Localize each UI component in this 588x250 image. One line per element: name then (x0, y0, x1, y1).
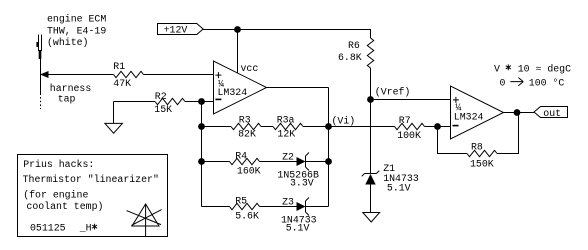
wire R8 to output (497, 113, 519, 154)
zener Z1 (362, 171, 380, 185)
svg-text:R3a: R3a (277, 115, 295, 126)
ground (Z1) (363, 213, 380, 223)
svg-text:82K: 82K (238, 128, 256, 139)
wire R5 to Z3 (260, 206, 297, 208)
op-amp U1 plus sign (215, 72, 221, 78)
resistor R7 (395, 123, 425, 129)
op-amp U1 triangle (214, 61, 267, 114)
wire op-amp2 output (504, 112, 535, 114)
svg-text:R2: R2 (155, 91, 167, 102)
svg-text:R8: R8 (471, 141, 483, 152)
wire Z3 to right bus (306, 206, 329, 208)
svg-text:3.3V: 3.3V (290, 177, 314, 188)
date code star (92, 224, 97, 230)
svg-text:_H: _H (79, 223, 92, 234)
svg-text:THW, E4-19: THW, E4-19 (47, 26, 106, 37)
zener Z2 (297, 153, 310, 171)
wire Z2 to right bus (306, 161, 329, 163)
svg-text:160K: 160K (237, 165, 261, 176)
wire Vref vertical to Z1 (370, 100, 372, 174)
svg-text:R3: R3 (239, 115, 251, 126)
svg-text:engine ECM: engine ECM (47, 13, 106, 24)
svg-text:Thermistor "linearizer": Thermistor "linearizer" (23, 174, 159, 185)
svg-text:V: V (494, 63, 500, 74)
wire R3 to R3a (261, 126, 273, 128)
svg-text:R5: R5 (235, 195, 247, 206)
connector stub (39, 50, 42, 59)
op-amp U2 triangle (451, 86, 504, 139)
svg-text:harness: harness (50, 83, 92, 94)
connector prong right (41, 35, 43, 52)
wire op-amp1 output (267, 87, 329, 89)
wire left bus (201, 102, 203, 207)
note arrow (510, 78, 523, 86)
svg-text:R6: R6 (348, 40, 360, 51)
resistor R4 (230, 158, 260, 164)
thermistor logo (127, 204, 162, 236)
wire R8 feedback (438, 127, 468, 154)
wire R1 row left (41, 74, 114, 76)
svg-text:Z2: Z2 (282, 151, 294, 162)
svg-text:Z3: Z3 (282, 196, 294, 207)
junction Z2/right bus (325, 158, 332, 165)
op-amp U1 minus sign (215, 98, 221, 100)
junction Vi node (325, 123, 332, 130)
resistor R6 (367, 38, 373, 68)
svg-text:coolant temp): coolant temp) (26, 201, 103, 212)
note asterisk star (506, 64, 511, 70)
wire R6 to Vref node (370, 68, 372, 100)
svg-text:0: 0 (500, 78, 506, 89)
svg-text:5.1V: 5.1V (286, 222, 310, 233)
wire R1 to op-amp (144, 74, 214, 76)
wire R5 row left (202, 206, 230, 208)
svg-text:5.6K: 5.6K (235, 210, 259, 221)
svg-text:051125: 051125 (30, 223, 66, 234)
svg-text:LM324: LM324 (454, 111, 484, 122)
wire R2 to op-amp minus (185, 101, 214, 103)
svg-text:tap: tap (58, 94, 76, 105)
svg-text:6.8K: 6.8K (338, 52, 362, 63)
svg-text:(for engine: (for engine (23, 190, 88, 201)
Prius hacks box (18, 155, 168, 237)
harness wire vertical (40, 50, 42, 95)
harness tap blob (36, 42, 38, 47)
svg-text:100 °C: 100 °C (529, 78, 565, 89)
svg-text:(Vref): (Vref) (375, 87, 411, 98)
wire R7 to op-amp2 minus (425, 126, 451, 128)
svg-text:5.1V: 5.1V (387, 182, 411, 193)
junction bus/R4 (198, 158, 205, 165)
wire right bus (328, 88, 330, 207)
svg-text:R1: R1 (113, 61, 125, 72)
svg-text:47K: 47K (113, 78, 131, 89)
wire +12V rail (203, 30, 371, 39)
wire R4 row left (202, 161, 230, 163)
connector prong left (38, 35, 40, 52)
svg-text:R4: R4 (235, 150, 247, 161)
wire Vref row (371, 99, 451, 101)
svg-text:100K: 100K (397, 130, 421, 141)
resistor R8 (467, 150, 497, 156)
op-amp U2 plus sign (453, 97, 459, 103)
resistor R1 (114, 71, 144, 77)
svg-text:(white): (white) (47, 37, 88, 48)
svg-text:vcc: vcc (241, 63, 259, 74)
wire Vi row (303, 126, 395, 128)
op-amp U2 minus sign (453, 125, 459, 127)
resistor R3a (273, 123, 303, 129)
junction output/out (514, 109, 521, 116)
svg-text:+12V: +12V (164, 25, 188, 36)
ground (R2) (105, 123, 123, 133)
resistor R5 (230, 203, 260, 209)
junction +12V/vcc (234, 26, 241, 33)
junction R2/minus/bus (198, 98, 205, 105)
resistor R3 (231, 123, 261, 129)
svg-text:LM324: LM324 (218, 87, 248, 98)
svg-text:12K: 12K (277, 128, 295, 139)
wire Z1 to ground (370, 185, 372, 213)
wire R3 row (202, 126, 232, 128)
svg-text:Prius hacks:: Prius hacks: (23, 159, 94, 170)
svg-text:10 ≈ degC: 10 ≈ degC (518, 63, 571, 74)
wire R2 row left (114, 101, 156, 103)
junction Vref node (367, 96, 374, 103)
zener Z3 (297, 198, 310, 216)
svg-text:15K: 15K (154, 104, 172, 115)
svg-text:150K: 150K (470, 158, 494, 169)
+12V supply tag (158, 24, 204, 35)
wire R2 ground drop (113, 102, 115, 124)
junction R7/minus/R8 (434, 123, 441, 130)
harness wire dotted (40, 97, 42, 109)
resistor R2 (155, 98, 185, 104)
junction bus/R3 (198, 123, 205, 130)
svg-text:(Vi): (Vi) (332, 116, 356, 127)
wire R4 to Z2 (260, 161, 297, 163)
svg-text:out: out (543, 108, 561, 119)
wire vcc drop (237, 30, 239, 74)
out tag (534, 107, 568, 118)
svg-text:R7: R7 (399, 115, 411, 126)
arrow into harness tap (40, 71, 49, 78)
